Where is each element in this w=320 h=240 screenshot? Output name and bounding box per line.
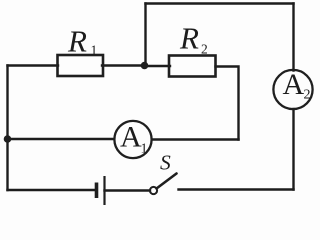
node N junction dot [4,135,12,143]
label R1 [67,24,97,59]
resistor R1 [58,55,104,76]
svg-text:1: 1 [141,142,148,157]
wire R1 to node M [102,64,146,66]
svg-text:2: 2 [304,88,311,103]
svg-text:R: R [67,24,87,59]
wire A2 down to bottom corner [292,109,294,190]
wire A1 to vertical riser [152,138,239,140]
wire battery to left corner [8,189,96,191]
battery [97,176,105,205]
wire left vertical [6,66,8,191]
ammeter A1 [114,121,151,159]
wire node N to A1 [8,138,115,140]
svg-text:A: A [283,68,305,101]
switch S [150,174,177,195]
wire node M vertical up [144,4,146,66]
resistor R2 [169,56,216,77]
wire R2 right down to A1 line [216,67,239,140]
wire top horizontal [146,2,294,4]
wire switch pivot to battery [105,189,151,191]
ammeter A2 [273,68,312,109]
svg-text:R: R [179,21,199,56]
node M junction dot [141,62,149,70]
svg-text:2: 2 [201,42,208,57]
svg-text:A: A [120,121,142,154]
svg-text:S: S [160,151,171,175]
label R2 [179,21,208,57]
wire node M to R2 [146,65,171,67]
wire bottom right to switch [179,188,294,190]
wire right vertical to A2 [292,4,294,71]
svg-text:1: 1 [91,43,98,58]
wire left horizontal to R1 [8,64,59,66]
